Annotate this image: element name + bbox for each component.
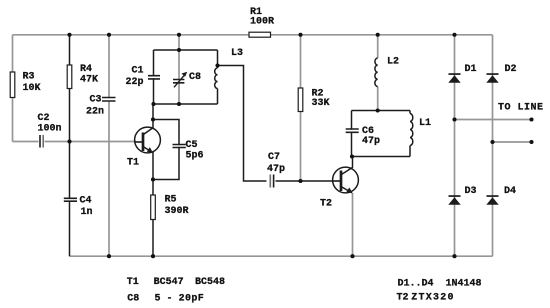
svg-text:D1: D1 (465, 64, 477, 75)
svg-text:D3: D3 (465, 186, 477, 197)
svg-text:R3: R3 (23, 71, 35, 82)
svg-text:ZTX320: ZTX320 (411, 292, 455, 303)
svg-text:100R: 100R (250, 16, 274, 27)
svg-text:R5: R5 (165, 194, 177, 205)
svg-text:47K: 47K (80, 74, 98, 85)
svg-text:R4: R4 (80, 64, 92, 75)
svg-text:TO LINE: TO LINE (498, 102, 544, 113)
svg-text:-: - (167, 293, 173, 304)
svg-text:T2: T2 (320, 198, 332, 209)
svg-text:D4: D4 (504, 186, 516, 197)
svg-text:T1: T1 (127, 277, 139, 288)
svg-text:BC548: BC548 (195, 277, 225, 288)
svg-text:C8: C8 (189, 72, 201, 83)
svg-text:C4: C4 (80, 195, 92, 206)
svg-text:D2: D2 (505, 64, 517, 75)
svg-text:C5: C5 (186, 140, 198, 151)
svg-text:100n: 100n (38, 123, 62, 134)
svg-text:C7: C7 (268, 152, 280, 163)
svg-text:390R: 390R (165, 206, 189, 217)
svg-text:BC547: BC547 (154, 277, 184, 288)
svg-text:5: 5 (155, 293, 161, 304)
svg-text:20pF: 20pF (179, 293, 205, 304)
svg-text:33K: 33K (312, 98, 330, 109)
svg-text:C8: C8 (127, 293, 139, 304)
svg-text:5p6: 5p6 (186, 150, 204, 161)
svg-text:10K: 10K (23, 83, 41, 94)
svg-text:L1: L1 (419, 118, 431, 129)
svg-text:T1: T1 (127, 157, 139, 168)
svg-text:L3: L3 (231, 48, 243, 59)
svg-text:C2: C2 (38, 113, 50, 124)
svg-text:22p: 22p (126, 77, 144, 88)
svg-text:1n: 1n (81, 207, 93, 218)
svg-text:T2: T2 (397, 292, 409, 303)
svg-text:L2: L2 (387, 56, 399, 67)
svg-text:22n: 22n (86, 106, 104, 117)
svg-text:C1: C1 (132, 65, 144, 76)
svg-text:D1..D4: D1..D4 (398, 278, 434, 289)
svg-text:1N4148: 1N4148 (446, 278, 482, 289)
svg-text:47p: 47p (362, 136, 380, 147)
svg-text:C3: C3 (90, 94, 102, 105)
svg-text:47p: 47p (267, 164, 285, 175)
